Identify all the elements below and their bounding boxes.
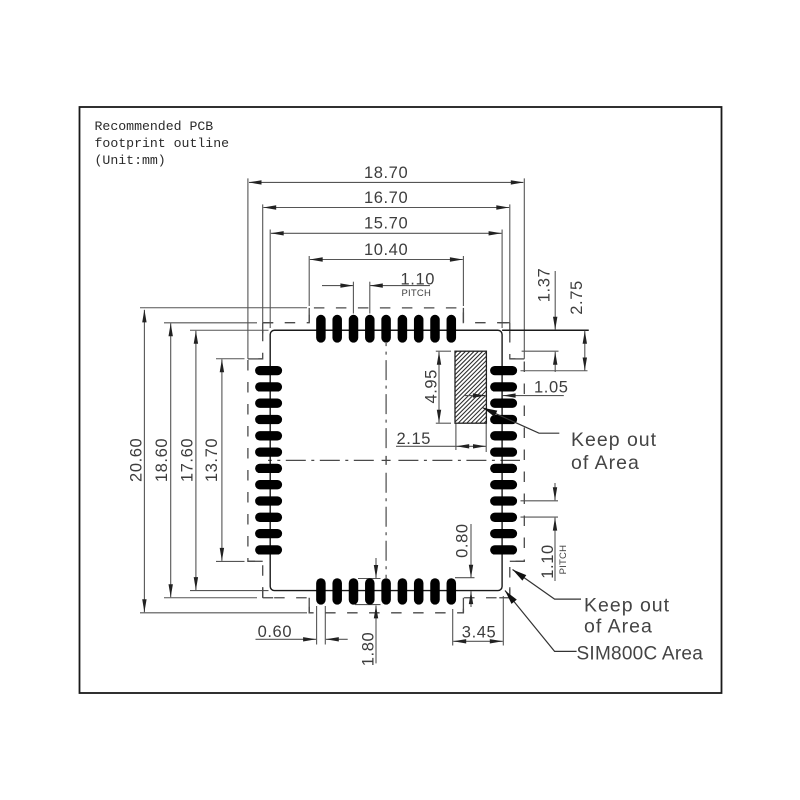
SIM800C module outline (solid, concave corner fillets) (270, 330, 502, 590)
dimension 4.95 (438, 352, 440, 423)
svg-text:of Area: of Area (584, 616, 653, 638)
svg-text:17.60: 17.60 (179, 438, 197, 482)
svg-text:0.80: 0.80 (454, 523, 472, 558)
svg-text:2.75: 2.75 (568, 280, 586, 315)
svg-text:1.37: 1.37 (535, 268, 553, 303)
leader to SIM800C outline corner (505, 591, 577, 652)
dimension 18.60 (170, 323, 172, 597)
svg-text:of Area: of Area (571, 452, 640, 474)
dimension 2.15 (396, 445, 486, 447)
svg-text:SIM800C Area: SIM800C Area (577, 644, 704, 665)
svg-text:13.70: 13.70 (203, 438, 221, 482)
svg-text:(Unit:mm): (Unit:mm) (95, 153, 166, 168)
centerlines (dash-dot) with center mark (268, 459, 374, 461)
svg-text:PITCH: PITCH (402, 288, 432, 299)
dimension 10.40 (310, 259, 463, 261)
svg-text:1.05: 1.05 (534, 378, 569, 396)
keep-out boundary step segments (308, 308, 310, 323)
svg-text:2.15: 2.15 (397, 430, 432, 448)
svg-text:20.60: 20.60 (127, 438, 145, 482)
dimension 1.37 (554, 271, 556, 330)
svg-text:18.60: 18.60 (153, 438, 171, 482)
svg-text:3.45: 3.45 (462, 623, 497, 641)
border frame of drawing sheet (80, 107, 722, 693)
svg-text:1.80: 1.80 (360, 632, 378, 667)
svg-text:18.70: 18.70 (364, 164, 408, 182)
dimension 15.70 (271, 232, 502, 234)
dimension 1.05 (465, 395, 486, 397)
dimension 20.60 (143, 310, 145, 612)
svg-text:1.10: 1.10 (401, 270, 436, 288)
svg-text:4.95: 4.95 (422, 369, 440, 404)
svg-text:footprint outline: footprint outline (95, 136, 230, 151)
left pad column (12 pads) (255, 366, 282, 375)
svg-text:15.70: 15.70 (364, 215, 408, 233)
extension lines for dimensions (247, 178, 249, 359)
bottom pad row (9 pads) (316, 578, 326, 604)
dimension 1.10 PITCH (top) (322, 285, 353, 287)
svg-text:16.70: 16.70 (364, 189, 408, 207)
keep-out area dashed boundary (notched) (248, 308, 524, 613)
leader to hatched keep-out rectangle (483, 408, 560, 434)
dimension 17.60 (195, 331, 197, 590)
dimension 2.75 (584, 331, 586, 371)
solid top edge extension line to the right (502, 329, 589, 331)
dimension 18.70 (249, 181, 523, 183)
svg-text:Recommended PCB: Recommended PCB (95, 119, 214, 134)
svg-text:Keep out: Keep out (584, 595, 670, 617)
dimension 3.45 (453, 640, 503, 642)
dimension 0.80 (470, 524, 472, 578)
dimension 16.70 (263, 207, 509, 209)
keep-out inner corner dashes (263, 322, 274, 324)
dimension 13.70 (221, 359, 223, 561)
svg-text:0.60: 0.60 (258, 623, 293, 641)
dimension 1.10 PITCH (right) (554, 483, 556, 500)
svg-text:PITCH: PITCH (558, 545, 569, 575)
dimension 1.80 (375, 558, 377, 578)
leader to keep-out boundary notch (lower right) (513, 570, 582, 600)
svg-text:10.40: 10.40 (364, 241, 408, 259)
right pad column (12 pads) (490, 366, 517, 375)
svg-text:1.10: 1.10 (539, 544, 557, 579)
dimension 0.60 (256, 638, 317, 640)
top pad row (9 pads) (316, 315, 326, 343)
svg-text:Keep out: Keep out (571, 429, 657, 451)
